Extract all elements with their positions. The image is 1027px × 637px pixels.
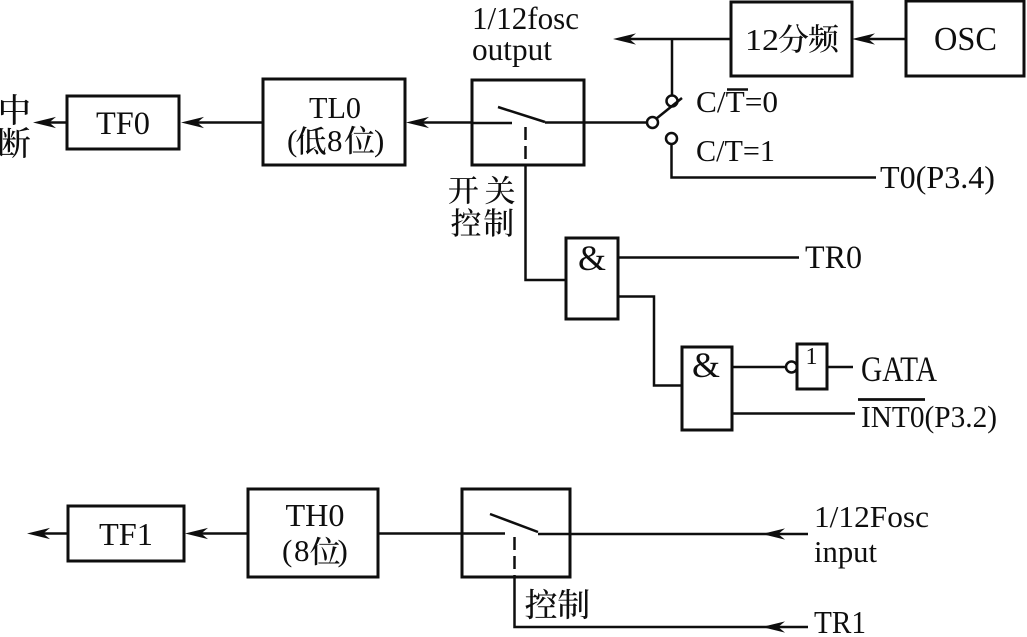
- wire S2 dashed control (inside box): [513, 537, 516, 577]
- wire U1 output to TR0: [618, 256, 799, 259]
- oscillator box OSC: [906, 1, 1024, 76]
- contact circle C/T=0: [667, 96, 678, 107]
- label 开关控制 switch control: [449, 176, 515, 237]
- node 中断 interrupt label: [0, 94, 30, 158]
- svg-text:(: (: [287, 123, 297, 158]
- wire U2 lower input from INT0: [732, 412, 855, 415]
- svg-text:8: 8: [327, 123, 343, 158]
- svg-text:1/12Fosc: 1/12Fosc: [814, 499, 929, 534]
- wire TF0 output to 中断 arrow: [33, 117, 67, 128]
- wire OSC to 12分频: [852, 33, 906, 44]
- svg-text:&: &: [692, 345, 720, 385]
- label 1/12fosc output: [472, 0, 579, 67]
- switch box S2: [462, 489, 570, 577]
- wire S1 dashed control (inside box): [524, 127, 527, 165]
- switch S1 blade: [498, 107, 545, 122]
- wire S2 control down to TR1 with arrow: [515, 577, 809, 633]
- svg-text:12: 12: [745, 22, 779, 57]
- svg-text:T0(P3.4): T0(P3.4): [880, 159, 995, 195]
- label 控制 control: [525, 589, 588, 619]
- and-gate U1: [566, 238, 618, 319]
- wire inverter to GATA: [827, 366, 853, 369]
- svg-text:C/T=1: C/T=1: [696, 133, 775, 168]
- wire switch S1 to TL0: [406, 117, 472, 128]
- wire TF1 output arrow: [27, 528, 68, 539]
- svg-text:TH0: TH0: [286, 497, 345, 533]
- svg-text:output: output: [472, 31, 552, 67]
- switch pole contact circle: [647, 117, 658, 128]
- wire TH0 to TF1: [185, 528, 248, 539]
- svg-text:TF1: TF1: [99, 516, 153, 552]
- register TL0 low 8 bits: [263, 79, 405, 165]
- inverter box 1: [797, 344, 827, 389]
- inverter bubble: [786, 362, 797, 373]
- and-gate U2: [682, 345, 732, 430]
- svg-text:INT0(P3.2): INT0(P3.2): [861, 399, 997, 434]
- switch blade pole to C/T=0 contact: [657, 98, 683, 119]
- register TF1: [68, 506, 184, 561]
- svg-text:): ): [374, 123, 384, 158]
- svg-text:8: 8: [294, 533, 310, 568]
- svg-text:TR0: TR0: [805, 240, 862, 276]
- wire S1 pole to contact circle: [545, 121, 647, 124]
- wire U1 to and-gate U2: [618, 297, 682, 386]
- register TF0: [67, 96, 179, 149]
- svg-text:OSC: OSC: [934, 21, 997, 58]
- switch box S1: [472, 80, 584, 165]
- wire U2 output to inverter: [732, 366, 786, 369]
- contact circle C/T=1: [666, 133, 677, 144]
- svg-text:GATA: GATA: [861, 349, 937, 389]
- wire contact up to junction node: [671, 39, 674, 96]
- wire S1 left stub: [472, 122, 512, 125]
- svg-text:TR1: TR1: [814, 604, 866, 637]
- wire 1/12Fosc input to S2 with arrow: [538, 528, 808, 539]
- wire TH0 to switch S2: [378, 532, 505, 535]
- label 1/12Fosc input: [814, 499, 929, 569]
- wire TL0 to TF0: [181, 117, 263, 128]
- wire S1 control down to AND gate U1: [526, 165, 567, 280]
- label INT0(P3.2) with overline on INT0: [858, 399, 997, 434]
- svg-text:TL0: TL0: [309, 90, 361, 125]
- svg-text:): ): [338, 533, 348, 568]
- switch S2 blade: [490, 514, 538, 532]
- svg-text:(: (: [282, 533, 292, 568]
- svg-text:&: &: [578, 238, 606, 278]
- wire C/T=1 contact down to T0 line: [672, 144, 877, 178]
- svg-text:TF0: TF0: [96, 106, 150, 142]
- register TH0 8 bits: [248, 489, 378, 577]
- svg-text:input: input: [814, 534, 877, 569]
- svg-text:1: 1: [806, 344, 818, 370]
- label C/T=0 with overline on T: [696, 84, 778, 119]
- wire junction to 12分频 with output arrow: [613, 33, 731, 44]
- divider box 12分频: [731, 2, 852, 76]
